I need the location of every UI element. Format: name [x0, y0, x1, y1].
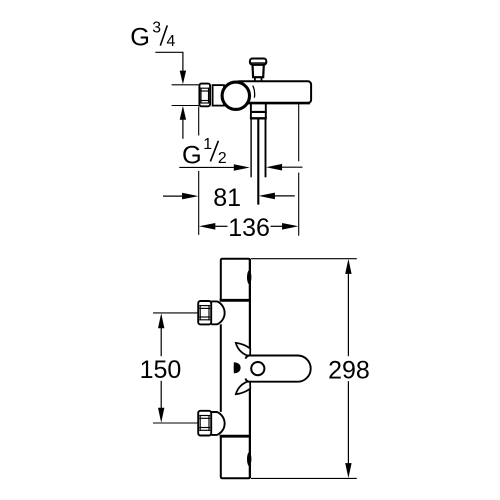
extension line top of nut: [172, 84, 199, 86]
bottom escutcheon dome: [211, 412, 224, 435]
svg-text:136: 136: [228, 214, 270, 242]
bottom wing leaf: [236, 382, 251, 395]
circle on handle: [251, 362, 264, 375]
top wing leaf: [236, 343, 251, 356]
diverter pull knob on top: [250, 59, 266, 82]
arrow down to top extension: [180, 71, 186, 85]
screw bulge top: [247, 270, 251, 284]
svg-text:G: G: [182, 142, 202, 170]
bottom union nut: [198, 411, 211, 436]
dimension 298: [328, 259, 370, 478]
top cap of body: [221, 259, 250, 301]
extension line (right, from body underside): [298, 103, 300, 161]
svg-text:2: 2: [218, 150, 227, 167]
body left edge between escutcheons: [220, 324, 222, 412]
leader line for G 3/4: [155, 52, 183, 71]
dimension 81: [163, 184, 295, 212]
svg-text:3: 3: [152, 19, 161, 36]
hose outlet pipe lines: [250, 119, 252, 177]
label G 3/4: [130, 19, 175, 51]
body right edge: [249, 259, 251, 356]
leader for G 1/2 with arrow to pipe: [179, 166, 234, 168]
body (horizontal): [236, 81, 311, 103]
neck between nut and knob circle: [213, 85, 224, 106]
top union nut: [198, 301, 211, 324]
bottom cap of body: [221, 436, 250, 478]
svg-text:G: G: [130, 23, 150, 51]
label G 1/2: [182, 136, 227, 170]
U handle (lever seen from above): [246, 356, 311, 382]
thermostat knob circle: [222, 82, 249, 109]
svg-text:298: 298: [328, 356, 370, 384]
svg-text:1: 1: [203, 136, 212, 153]
opposite arrow on right of pipe: [266, 164, 282, 171]
dimension 150: [140, 313, 182, 423]
150 extension lines: [153, 312, 198, 314]
dimension 136: [199, 214, 298, 242]
hex union nut G3/4: [199, 84, 210, 107]
extension line (left, from nut) for 81/136 dims: [198, 107, 200, 136]
extension line bottom of nut: [172, 105, 199, 107]
svg-text:81: 81: [213, 184, 241, 212]
screw bulge bottom: [247, 452, 251, 466]
thick divider line above bottom cap: [220, 435, 251, 438]
svg-text:4: 4: [167, 33, 176, 50]
arrow up to bottom extension: [180, 106, 186, 120]
thick underside line of body: [240, 102, 310, 105]
svg-text:150: 150: [140, 356, 182, 384]
top escutcheon dome: [211, 301, 224, 324]
outlet block under body: [250, 103, 267, 118]
thick divider line under top cap: [220, 299, 251, 302]
safety button dot: [234, 362, 241, 373]
transition arc inside body: [253, 86, 255, 98]
298 extension lines: [251, 258, 357, 260]
